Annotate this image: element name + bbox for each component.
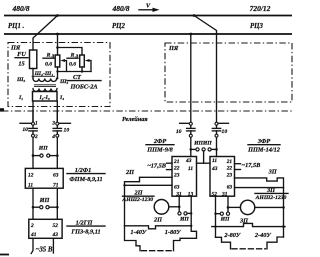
cable dashed link right group — [232, 248, 266, 250]
wire pin31 down — [178, 196, 180, 211]
wire R1 bottom — [57, 67, 59, 79]
svg-text:1: 1 — [35, 120, 38, 126]
svg-text:480/8: 480/8 — [111, 4, 129, 13]
svg-text:41: 41 — [30, 232, 37, 238]
node on rail1 left — [56, 14, 59, 17]
terminal with fuse on wire 2 — [51, 111, 70, 140]
block receiver ППМ-9/8 — [172, 157, 197, 197]
node pin31 coil 3П — [227, 206, 230, 209]
block Ф1 ФПМ filter — [25, 168, 63, 188]
node on rail2 left — [56, 33, 59, 36]
svg-text:10: 10 — [176, 129, 182, 135]
scan artifact left edge bottom — [0, 254, 9, 256]
svg-text:1/2Ф1: 1/2Ф1 — [75, 167, 92, 174]
block receiver ППМ-14/12 — [210, 157, 235, 197]
wire transformer I1 down to terminal — [32, 101, 34, 122]
node pin31 coil — [178, 206, 181, 209]
svg-text:Релейная: Релейная — [122, 116, 148, 123]
wire track box to receiver jack right — [216, 137, 218, 156]
label 2ФР ППМ-9/8 — [146, 138, 174, 154]
label Rд/0,6 first — [43, 53, 55, 68]
wire pin52 down right group — [215, 196, 217, 237]
wire coil 2П to pin31 wire — [169, 206, 179, 208]
svg-text:1/2ГП: 1/2ГП — [76, 219, 94, 226]
terminal with fuse on wire 1 — [20, 111, 38, 140]
wire rail2 down to resistor branch — [57, 34, 59, 48]
wire pin23 step to bus left — [125, 177, 173, 226]
svg-text:ИП: ИП — [220, 217, 230, 223]
svg-text:I₂-I₃: I₂-I₃ — [39, 95, 50, 101]
svg-text:АНШ2-1230: АНШ2-1230 — [121, 197, 153, 203]
winding I terminal box I2-I3 — [33, 92, 58, 102]
boundary line Релейная (dash-dot) — [2, 110, 294, 112]
wire supply stub 22 right — [235, 169, 241, 171]
node bus coil 3П — [282, 206, 285, 209]
svg-text:ФПМ-8,9,11: ФПМ-8,9,11 — [69, 176, 102, 183]
svg-text:ПЯ: ПЯ — [168, 45, 179, 52]
wire fuse to transformer winding — [32, 69, 34, 79]
arrow adjuster R2 — [85, 59, 91, 72]
jacks ИП upper row — [32, 145, 59, 157]
node bottom R1 — [56, 70, 58, 72]
wire generator supply right — [52, 238, 54, 253]
wire resistor parallel top — [58, 48, 83, 56]
wire resistor parallel bottom — [58, 71, 92, 73]
svg-text:31: 31 — [221, 192, 228, 198]
label СТ/ПОБС-2А — [67, 74, 101, 91]
label 2П/АНШ2-1230 — [121, 190, 154, 204]
wire supply stub 22 left — [167, 169, 173, 171]
svg-text:ИП: ИП — [39, 197, 51, 204]
box ПЯ right (dash-dot track box) — [165, 43, 292, 102]
wire bus 1-40У/1-80У with notch — [125, 226, 192, 229]
label V train direction arrow — [139, 3, 160, 13]
wire pin63 to bus left — [125, 184, 173, 186]
svg-text:ИП: ИП — [38, 145, 48, 151]
arrow adjuster R1 — [60, 59, 66, 72]
label FU/15 — [15, 51, 28, 68]
node rail2 right — [189, 33, 192, 36]
svg-text:2П: 2П — [153, 217, 163, 224]
svg-text:720/12: 720/12 — [250, 4, 271, 13]
label Rд/0,6 second — [67, 53, 79, 68]
terminal with fuse on wire 4 — [212, 122, 228, 137]
svg-text:РЦ2: РЦ2 — [112, 23, 125, 30]
wire ФПМ to jacks right — [56, 188, 58, 219]
svg-text:23: 23 — [173, 172, 180, 178]
svg-text:21: 21 — [173, 159, 180, 165]
transformer CT winding II (top) — [33, 79, 58, 82]
jacks ИП ИП receivers — [190, 140, 218, 163]
node bus left — [190, 225, 192, 227]
svg-text:ГП3-8,9,11: ГП3-8,9,11 — [70, 229, 100, 236]
wire coil 3П left lead — [228, 206, 240, 208]
box ПЯ left (dash-dot track box) — [8, 43, 110, 107]
label 3П/АНШ2-1230 — [255, 187, 288, 201]
svg-text:ИП: ИП — [202, 140, 212, 146]
svg-text:23: 23 — [226, 172, 233, 178]
svg-text:2-80У: 2-80У — [223, 232, 241, 239]
rail 2 (bottom rail line) — [4, 33, 292, 35]
jacks ИП relay 3П — [214, 212, 230, 223]
svg-text:63: 63 — [174, 184, 180, 190]
wire R2 bottom — [81, 67, 83, 72]
relay coil 3П — [240, 200, 254, 214]
wire bus 2-80У/2-40У with notch — [212, 223, 285, 226]
node bottom R2 — [81, 70, 83, 72]
wire generator supply left — [31, 238, 33, 253]
svg-text:43: 43 — [211, 166, 218, 172]
wire terminal to ФПМ left — [32, 137, 34, 168]
cable dashed link left group — [142, 250, 173, 252]
svg-text:0,6: 0,6 — [69, 62, 76, 68]
svg-text:52: 52 — [53, 223, 59, 229]
svg-text:РЦ3: РЦ3 — [250, 23, 263, 30]
svg-text:1-80У: 1-80У — [165, 229, 182, 236]
wire terminal to ФПМ right — [56, 137, 58, 168]
svg-text:Ш₃: Ш₃ — [59, 79, 68, 85]
svg-text:I₄: I₄ — [59, 95, 64, 101]
node rail1 right — [193, 14, 196, 17]
label 1/2Ф1 ФПМ-8,9,11 — [67, 167, 105, 183]
svg-text:3ФР: 3ФР — [257, 138, 271, 145]
svg-text:I₁: I₁ — [18, 95, 23, 101]
svg-text:63: 63 — [53, 173, 59, 179]
svg-text:480/8: 480/8 — [11, 4, 29, 13]
svg-text:21: 21 — [226, 159, 233, 165]
svg-text:10: 10 — [222, 129, 228, 135]
transformer CT winding I (bottom) — [33, 89, 57, 92]
svg-text:22: 22 — [226, 166, 233, 172]
cable drop right side right group — [267, 237, 284, 249]
svg-text:ИП: ИП — [179, 217, 189, 223]
svg-text:РЦ1 .: РЦ1 . — [8, 23, 25, 30]
svg-text:ППМ-9/8: ППМ-9/8 — [146, 147, 173, 154]
svg-text:2П: 2П — [125, 169, 135, 176]
wire diagonal rail1 to fuse lead — [33, 16, 58, 51]
wire pin63 to bus right — [235, 187, 284, 189]
svg-text:15: 15 — [18, 61, 24, 68]
svg-text:2: 2 — [30, 223, 34, 229]
svg-text:0,6: 0,6 — [45, 62, 52, 68]
wire diagonal rail1 to right track box — [194, 16, 217, 123]
resistor R1 Rд — [55, 55, 60, 67]
jacks ИП relay 2П — [178, 212, 193, 223]
label 1/2ГП ГП3-8,9,11 — [67, 219, 105, 235]
terminal with fuse on wire 3 — [176, 122, 195, 137]
svg-text:ППМ-14/12: ППМ-14/12 — [247, 147, 280, 154]
svg-text:Ш₅: Ш₅ — [16, 77, 25, 83]
svg-text:63: 63 — [227, 184, 233, 190]
svg-text:~35 В: ~35 В — [36, 247, 53, 254]
svg-text:10: 10 — [64, 127, 70, 133]
node bus pin63 — [123, 184, 125, 186]
fuse FU — [30, 50, 37, 69]
node resistor branch top — [56, 46, 59, 49]
svg-text:д: д — [52, 53, 55, 60]
svg-text:~17,5В: ~17,5В — [147, 162, 166, 169]
svg-text:2: 2 — [34, 134, 38, 140]
rail 1 (top rail line) — [4, 15, 292, 17]
cable drop left side — [125, 226, 141, 251]
transformer core lines — [34, 85, 56, 87]
wire pin23 step to bus right — [235, 178, 284, 188]
svg-text:АНШ2-1230: АНШ2-1230 — [255, 195, 287, 201]
wire rail2 down right — [190, 34, 192, 122]
svg-text:3: 3 — [51, 120, 55, 126]
wire track box to receiver jack left — [190, 137, 192, 156]
svg-text:22: 22 — [173, 166, 180, 172]
label 3ФР ППМ-14/12 — [247, 138, 280, 154]
wire bus right vertical — [283, 188, 285, 237]
svg-text:11: 11 — [212, 158, 217, 164]
svg-text:43: 43 — [185, 158, 192, 164]
svg-text:д: д — [76, 53, 79, 60]
scan artifact left edge middle — [0, 108, 4, 111]
svg-text:~17,5В: ~17,5В — [242, 162, 261, 169]
svg-text:ПОБС-2А: ПОБС-2А — [69, 84, 97, 91]
svg-text:11: 11 — [188, 166, 193, 172]
wire into R1 — [57, 48, 59, 56]
svg-text:52: 52 — [212, 192, 218, 198]
wire transformer I4 down to terminal — [56, 101, 58, 122]
cable drop left side right group — [216, 237, 231, 249]
svg-text:43: 43 — [52, 232, 59, 238]
svg-text:2ФР: 2ФР — [153, 138, 167, 145]
block ГП generator — [29, 219, 62, 238]
svg-text:3П: 3П — [268, 169, 278, 176]
wire ФПМ to jacks left — [32, 188, 34, 219]
wire supply stub 21 right — [235, 163, 241, 165]
svg-text:12: 12 — [28, 173, 34, 179]
wire supply stub 21 left — [167, 162, 173, 164]
svg-text:2-40У: 2-40У — [254, 232, 272, 239]
node bus bottom right — [282, 225, 285, 228]
relay coil 2П — [154, 200, 169, 215]
wire pin31 down right group — [227, 196, 229, 212]
resistor R2 Rд — [80, 55, 85, 67]
jacks ИП generator — [32, 197, 59, 209]
wire coil 3П right lead to bus — [255, 206, 284, 208]
svg-text:4: 4 — [51, 134, 55, 140]
wire pin13 down — [190, 196, 192, 231]
svg-text:1-40У: 1-40У — [130, 229, 147, 236]
svg-text:10: 10 — [22, 127, 28, 133]
cable drop right side — [174, 231, 197, 250]
svg-text:FU: FU — [17, 51, 26, 58]
